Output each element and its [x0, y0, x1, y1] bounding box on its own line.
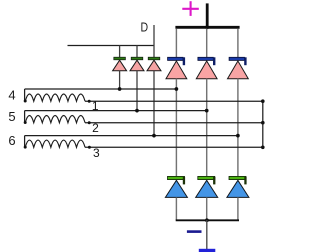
- svg-text:6: 6: [8, 133, 15, 148]
- node: winding 5 start terminal: [24, 121, 27, 124]
- node star top: [261, 99, 265, 103]
- wire phase 1 (top line row 4): [25, 88, 177, 90]
- wire winding 5 end to star point: [85, 122, 263, 124]
- wire phase 2 (top line row 5): [25, 110, 207, 112]
- winding 4 start riser: [24, 89, 26, 101]
- node phase 2 to column B: [205, 109, 209, 113]
- wire D terminal (vertical at x=154): [153, 25, 155, 58]
- rectifier diode VD2+ (top, pink, navy bar): [196, 57, 217, 78]
- stator winding 4 (coil): [24, 89, 85, 103]
- diode trio D2 (small, pink, green bar): [130, 46, 144, 111]
- node trio D1 to phase 1: [118, 87, 122, 91]
- rectifier diode VD3+ (top, pink, navy bar): [228, 57, 249, 78]
- node trio D3 to phase 3: [152, 134, 156, 138]
- node phase 1 to column A: [175, 87, 179, 91]
- minus sign: [187, 230, 202, 233]
- winding 5 start riser: [24, 111, 26, 123]
- wire column A middle: [175, 79, 177, 177]
- svg-text:4: 4: [8, 88, 15, 103]
- wire negative bus: [176, 219, 239, 221]
- svg-text:3: 3: [93, 146, 100, 160]
- node: terminal 2: [88, 121, 91, 124]
- node star middle: [261, 121, 265, 125]
- wire to minus terminal: [206, 220, 208, 249]
- node negative bus: [205, 218, 209, 222]
- node: terminal 1: [88, 100, 91, 103]
- wire column C top stub: [237, 29, 239, 58]
- node star bottom: [261, 146, 265, 150]
- wire winding 4 end to star point: [85, 100, 263, 102]
- svg-text:5: 5: [8, 109, 15, 124]
- node on positive bus: [205, 25, 209, 29]
- diode trio D3 (small, pink, green bar): [147, 57, 161, 135]
- wire column B middle: [206, 79, 208, 177]
- wire column C middle: [237, 79, 239, 177]
- rectifier diode VD3- (bottom, blue, green bar): [227, 176, 249, 220]
- node trio D2 to phase 2: [135, 109, 139, 113]
- wire phase 3 (top line row 6): [25, 135, 238, 137]
- rectifier diode VD1+ (top, pink, navy bar): [166, 57, 187, 78]
- positive bus bar (thick): [175, 3, 239, 27]
- node: winding 4 start terminal: [24, 100, 27, 103]
- wire W1 (trio cathode bus, top left): [68, 45, 155, 47]
- wire column A top stub: [175, 29, 177, 58]
- wire column B top stub: [206, 29, 208, 58]
- winding 6 start riser: [24, 136, 26, 148]
- plus terminal (+): [182, 1, 199, 16]
- stator winding 5 (coil): [24, 111, 85, 124]
- wire star point (neutral) vertical: [262, 101, 264, 147]
- svg-text:D: D: [141, 19, 149, 34]
- ground terminal bar (blue): [199, 249, 216, 252]
- wire winding 6 end to star point: [85, 146, 263, 148]
- rectifier diode VD2- (bottom, blue, green bar): [196, 176, 218, 220]
- stator winding 6 (coil): [24, 136, 85, 149]
- svg-text:2: 2: [92, 121, 99, 135]
- node: terminal 3: [88, 146, 91, 149]
- svg-text:1: 1: [92, 99, 99, 113]
- node: winding 6 start terminal: [24, 146, 27, 149]
- diode trio D1 (small, pink, green bar): [113, 46, 127, 90]
- rectifier diode VD1- (bottom, blue, green bar): [165, 176, 187, 220]
- node phase 3 to column C: [236, 134, 240, 138]
